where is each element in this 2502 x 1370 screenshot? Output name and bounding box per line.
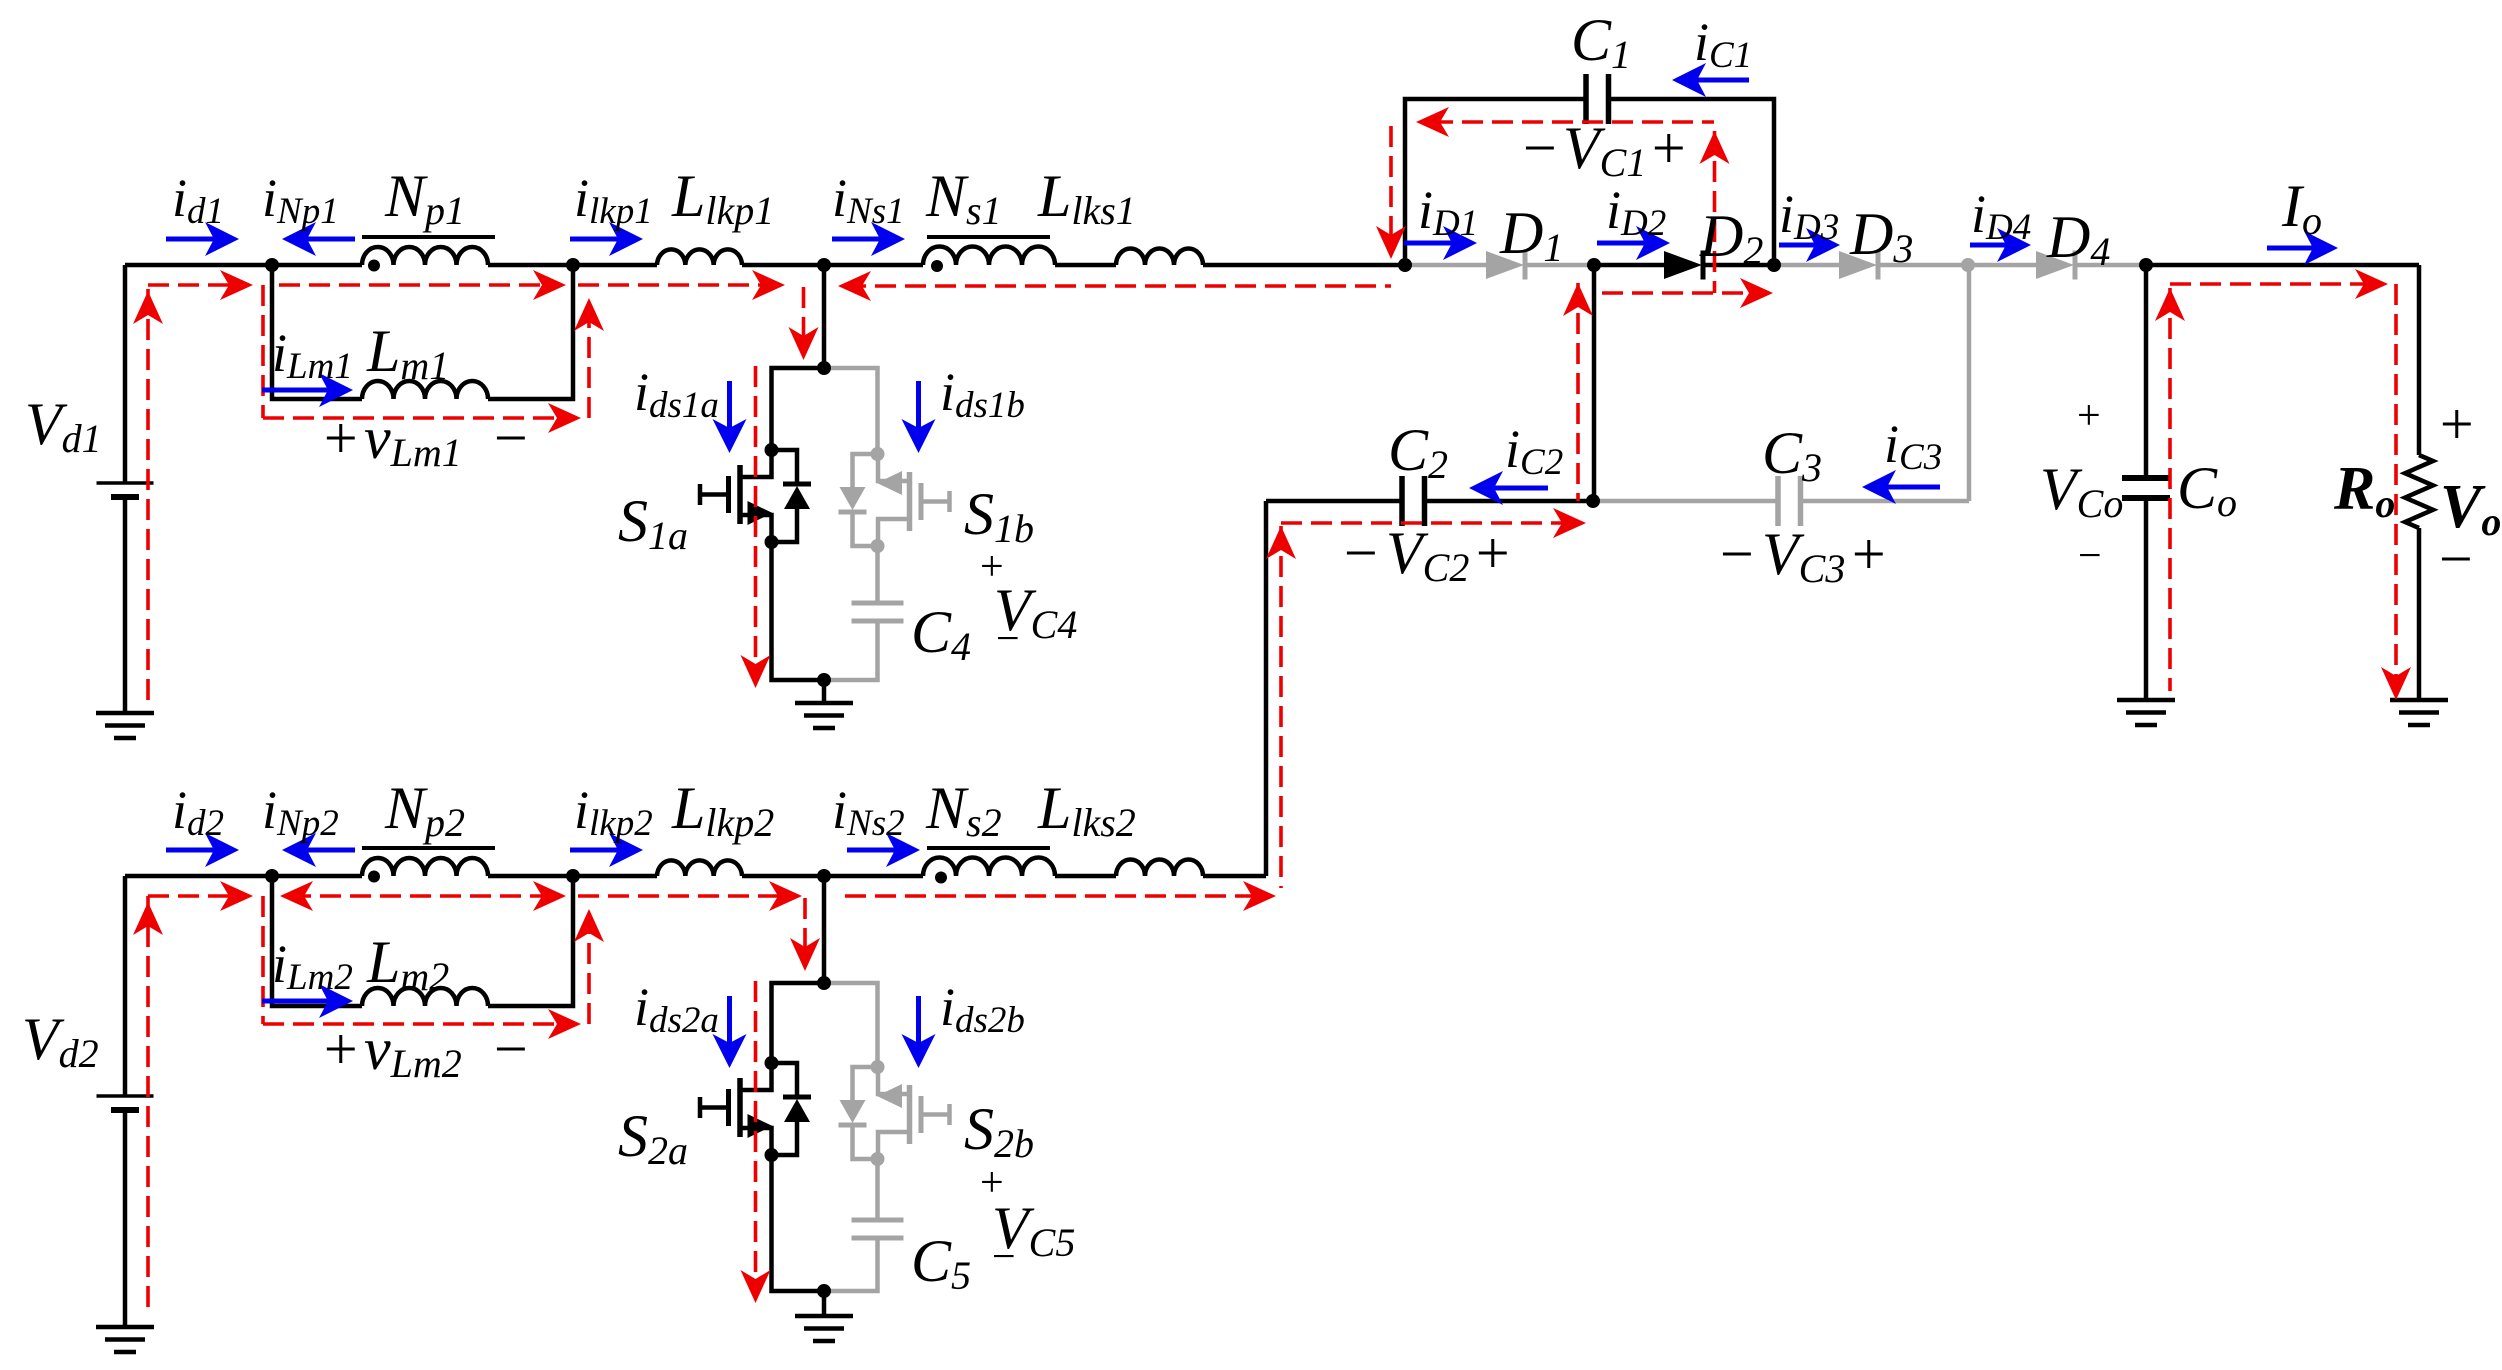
wire: red path through S1a — [754, 366, 758, 680]
red path arrowhead up at 589,298 — [574, 298, 604, 331]
svg-text:ids1a: ids1a — [634, 362, 719, 426]
svg-text:S2a: S2a — [618, 1103, 688, 1173]
winding Llks1 — [1116, 249, 1203, 266]
arrow I_o — [2267, 246, 2314, 251]
wire: Ro branch with resistor zigzag — [2417, 265, 2422, 455]
red path arrowhead up at 1714.5,131 — [1700, 131, 1730, 164]
arrow i_Np1 (left) — [306, 237, 355, 242]
capacitor C1 — [1586, 74, 1609, 124]
arrow i_C2 (left) — [1493, 486, 1548, 491]
red path arrowhead left at 280,896 — [280, 881, 313, 911]
svg-text:S2b: S2b — [964, 1096, 1034, 1166]
svg-text:vLm2: vLm2 — [364, 1016, 462, 1086]
red path arrowhead up at 148,902 — [133, 902, 163, 935]
red path arrowhead up at 148,291 — [133, 291, 163, 324]
svg-text:ids1b: ids1b — [940, 362, 1025, 426]
svg-text:iC1: iC1 — [1694, 12, 1752, 76]
red path arrowhead down at 755.5,1303 — [741, 1270, 771, 1303]
svg-text:iLm1: iLm1 — [272, 323, 353, 387]
wire: red path through Ro — [2394, 284, 2398, 695]
red path arrowhead down at 805,971 — [790, 938, 820, 971]
svg-text:D4: D4 — [2046, 204, 2110, 274]
blue current arrowhead right at 353,1001 — [319, 984, 353, 1018]
svg-text:Llks2: Llks2 — [1037, 775, 1136, 845]
arrow i_Lm1 — [262, 388, 329, 393]
blue current arrowhead right at 1840,245 — [1806, 228, 1840, 262]
capacitor Co — [2122, 478, 2170, 498]
wire: D3/D4 segment (gray) — [1774, 263, 1839, 268]
ground (S2) — [795, 1316, 853, 1341]
red path arrowhead right at 1276,896 — [1243, 881, 1276, 911]
wire: main bottom bus segments — [125, 874, 362, 879]
svg-text:−: − — [490, 1016, 531, 1082]
svg-text:Co: Co — [2177, 455, 2237, 525]
svg-text:iNp2: iNp2 — [262, 780, 339, 844]
winding Llkp2 — [657, 860, 742, 876]
arrow i_lkp2 — [570, 848, 619, 853]
wire: red path under C2 — [1281, 521, 1580, 525]
svg-text:Llkp2: Llkp2 — [671, 775, 774, 845]
core bar Ns2 — [927, 846, 1050, 850]
node: D2-D3 junction / C1 right — [1767, 258, 1781, 272]
wire: C3 branch (gray) — [1593, 499, 1778, 504]
svg-text:Lm1: Lm1 — [366, 318, 449, 388]
ground (Vd2) — [96, 1327, 154, 1352]
red path arrowhead right at 253,285 — [220, 270, 253, 300]
blue current arrowhead down at 918.5,453 — [902, 419, 936, 453]
svg-text:C5: C5 — [911, 1228, 971, 1298]
ground (Co) — [2117, 700, 2175, 725]
wire: Vd2 source leads — [123, 876, 128, 1096]
arrow i_Ns1 — [832, 237, 881, 242]
transistor S2b — [839, 1067, 950, 1159]
wire: link to circuit 2 — [1264, 501, 1269, 876]
red path arrowhead right at 1773,293 — [1740, 278, 1773, 308]
svg-text:D1: D1 — [1499, 200, 1563, 270]
wire: red path link riser — [1279, 526, 1283, 888]
svg-text:C4: C4 — [911, 599, 971, 669]
winding Llkp1 — [657, 249, 742, 265]
wire: main top bus segments — [125, 263, 362, 268]
red path arrowhead up at 1281,526 — [1266, 526, 1296, 559]
wire: red path under D2 — [1602, 291, 1765, 295]
transistor S2a — [700, 1063, 811, 1155]
svg-text:Vd2: Vd2 — [22, 1006, 99, 1076]
svg-text:VC1: VC1 — [1563, 115, 1646, 185]
winding Lm1 — [362, 381, 488, 399]
svg-text:−: − — [2435, 526, 2476, 592]
red path arrowhead right at 566,285 — [533, 270, 566, 300]
svg-text:VC3: VC3 — [1762, 521, 1845, 591]
svg-text:Llkp1: Llkp1 — [671, 163, 774, 233]
svg-text:−: − — [2078, 533, 2102, 579]
svg-text:+: + — [2436, 391, 2477, 457]
blue current arrowhead left at 282,239 — [282, 222, 316, 256]
blue current arrowhead right at 905,239 — [871, 222, 905, 256]
capacitor C5 — [852, 1220, 904, 1238]
node: S1a source — [765, 535, 779, 549]
wire: red path to Ro — [2170, 282, 2382, 286]
red path arrowhead right at 581,418 — [548, 403, 581, 433]
svg-text:+: + — [320, 1016, 361, 1082]
red path arrowhead down at 755.5,688 — [741, 655, 771, 688]
svg-text:+: + — [1472, 520, 1513, 586]
winding Ns1 — [923, 247, 1055, 266]
svg-text:iD4: iD4 — [1971, 184, 2031, 248]
red path arrowhead left at 1416,122 — [1416, 107, 1449, 137]
wire: switch branch S2 — [822, 876, 827, 983]
red path arrowhead up at 2170,288 — [2155, 288, 2185, 321]
svg-text:Io: Io — [2281, 173, 2322, 243]
wire: D2 segment (black) — [1594, 263, 1664, 268]
blue current arrowhead right at 239,850 — [205, 833, 239, 867]
wire: red path under Np1 — [279, 283, 560, 287]
wire: C2 branch — [1592, 265, 1597, 501]
wire: output segment — [2146, 263, 2419, 268]
arrow i_D3 — [1779, 243, 1816, 248]
svg-text:−: − — [992, 1234, 1016, 1280]
svg-text:id2: id2 — [172, 780, 224, 844]
diode D3 — [1839, 251, 1878, 280]
wire: red path Vd1 rise — [146, 285, 150, 700]
capacitor C3 — [1778, 476, 1801, 526]
wire: red path Lm1 loop bottom — [263, 416, 575, 420]
polarity dot Ns1 — [931, 260, 943, 272]
wire: red path Lm2 loop left — [261, 896, 265, 1024]
svg-text:+: + — [2077, 393, 2101, 439]
svg-text:S1a: S1a — [618, 488, 688, 558]
node: S2b drain (gray) — [871, 1060, 885, 1074]
svg-text:vLm1: vLm1 — [364, 405, 462, 475]
red path arrowhead right at 566,896 — [533, 881, 566, 911]
node: S2 bottom rail — [817, 1284, 831, 1298]
svg-text:ids2a: ids2a — [634, 977, 719, 1041]
arrow i_Ns2 — [847, 848, 896, 853]
arrow i_Lm2 — [262, 999, 329, 1004]
capacitor C2 — [1402, 476, 1425, 526]
wire: S2b branch (gray) — [824, 983, 878, 1067]
blue current arrowhead right at 643,239 — [609, 222, 643, 256]
svg-text:−: − — [1716, 521, 1757, 587]
node: C1 left / D1 anode — [1398, 258, 1412, 272]
svg-text:VC2: VC2 — [1386, 520, 1469, 590]
polarity dot Np1 — [368, 260, 380, 272]
red path arrowhead right at 1586,523 — [1553, 508, 1586, 538]
node: S1b drain (gray) — [871, 447, 885, 461]
diode D1 — [1486, 251, 1525, 280]
transistor S1a — [700, 450, 811, 542]
red path arrowhead left at 838,286 — [838, 271, 871, 301]
wire: red path under Np2 — [290, 894, 560, 898]
node: bus/Lm1 left — [265, 258, 279, 272]
wire: red path along secondary 2 — [845, 894, 1255, 898]
ground (Ro) — [2390, 700, 2448, 725]
blue current arrowhead right at 2031,245 — [1997, 228, 2031, 262]
svg-text:iC2: iC2 — [1505, 419, 1563, 483]
winding Np2 — [362, 858, 488, 876]
winding Np1 — [362, 247, 488, 265]
red path arrowhead right at 802,896 — [769, 881, 802, 911]
svg-text:iD3: iD3 — [1779, 184, 1839, 248]
polarity dot Np2 — [368, 871, 380, 883]
arrow i_d2 — [166, 848, 215, 853]
arrow i_C3 (left) — [1886, 485, 1940, 490]
svg-text:C3: C3 — [1762, 420, 1822, 490]
blue current arrowhead left at 1469,488 — [1469, 471, 1503, 505]
red path arrowhead up at 589,909 — [574, 909, 604, 942]
arrow i_d1 — [166, 237, 215, 242]
red path arrowhead right at 785,285 — [752, 270, 785, 300]
wire: Lm2 loop — [272, 876, 362, 1006]
wire: D1 segment (gray) — [1405, 263, 1486, 268]
svg-text:iNs2: iNs2 — [832, 780, 905, 844]
arrow i_ds2b (down) — [916, 996, 921, 1044]
wire: red path Vd2 rise — [146, 896, 150, 1310]
svg-text:iD2: iD2 — [1606, 180, 1666, 244]
svg-text:−: − — [490, 405, 531, 471]
wire: Co branch — [2144, 265, 2149, 478]
ground (S1) — [795, 703, 853, 728]
blue current arrowhead down at 918.5,1068 — [902, 1034, 936, 1068]
svg-text:−: − — [996, 616, 1020, 662]
wire: S1b branch (gray) — [824, 368, 878, 454]
svg-text:D3: D3 — [1849, 201, 1913, 271]
blue current arrowhead right at 353,390 — [319, 373, 353, 407]
blue current arrowhead down at 729.5,1068 — [713, 1034, 747, 1068]
wire: red path C1 loop left — [1389, 126, 1393, 251]
blue current arrowhead right at 239,239 — [205, 222, 239, 256]
wire: red path Lm2 loop bottom — [263, 1022, 575, 1026]
svg-text:ids2b: ids2b — [940, 977, 1025, 1041]
wire: red path Lm1 loop right — [587, 305, 591, 418]
node: D3-D4 junction (gray) — [1961, 258, 1975, 272]
red path arrowhead down at 1391,259 — [1376, 226, 1406, 259]
svg-text:iNp1: iNp1 — [262, 168, 339, 232]
arrow i_D1 — [1404, 241, 1453, 246]
node: S1 top rail — [817, 361, 831, 375]
node: C2-C3 junction — [1586, 494, 1600, 508]
node: bus2/S2 branch — [817, 869, 831, 883]
blue current arrowhead right at 2338,248 — [2304, 231, 2338, 265]
svg-text:iLm2: iLm2 — [272, 934, 353, 998]
winding Ns2 — [923, 858, 1055, 877]
core bar Np2 — [362, 846, 495, 850]
red path arrowhead up at 1578,283 — [1563, 283, 1593, 316]
ground (Vd1) — [96, 713, 154, 738]
arrow i_ds1a (down) — [727, 381, 732, 429]
resistor Ro — [2405, 455, 2433, 528]
svg-text:+: + — [1648, 115, 1689, 181]
svg-text:VCo: VCo — [2040, 456, 2123, 526]
wire: red path Lm1 loop left — [261, 285, 265, 418]
arrow i_lkp1 — [570, 237, 619, 242]
node: bus2/Lm2 right — [566, 869, 580, 883]
node: S2 top rail — [817, 976, 831, 990]
wire: red path to switch 2 — [578, 894, 794, 898]
arrow i_C1 (left) — [1696, 78, 1749, 83]
svg-text:Np2: Np2 — [384, 775, 465, 845]
svg-text:−: − — [1340, 520, 1381, 586]
node: bus/Lm1 right — [566, 258, 580, 272]
node: D1-D2 junction — [1587, 258, 1601, 272]
svg-text:Ro: Ro — [2333, 455, 2395, 526]
core bar Np1 — [362, 235, 495, 239]
red path arrowhead right at 581,1024 — [548, 1009, 581, 1039]
node: bus2/Lm2 left — [265, 869, 279, 883]
svg-text:ilkp2: ilkp2 — [574, 780, 653, 844]
svg-text:Vd1: Vd1 — [25, 391, 102, 461]
svg-text:iD1: iD1 — [1418, 180, 1478, 244]
svg-text:+: + — [1848, 521, 1889, 587]
battery Vd2 — [97, 1096, 154, 1110]
arrow i_D4 — [1970, 243, 2007, 248]
blue current arrowhead right at 643,850 — [609, 833, 643, 867]
winding Lm2 — [362, 988, 488, 1006]
blue current arrowhead left at 1672,80 — [1672, 63, 1706, 97]
red path arrowhead right at 253,896 — [220, 881, 253, 911]
blue current arrowhead right at 920,850 — [886, 833, 920, 867]
capacitor C4 — [852, 603, 904, 621]
blue current arrowhead right at 1670,243 — [1636, 226, 1670, 260]
svg-text:C1: C1 — [1571, 7, 1631, 77]
polarity dot Ns2 — [935, 872, 947, 884]
red path arrowhead down at 2396,700 — [2381, 667, 2411, 700]
wire: red return under secondary 1 — [845, 284, 1391, 288]
svg-text:Ns2: Ns2 — [925, 775, 1002, 845]
node: D4 cathode / Co branch — [2139, 258, 2153, 272]
wire: red path to primary 2 — [148, 894, 244, 898]
wire: red path Lm2 loop right — [587, 916, 591, 1024]
blue current arrowhead down at 729.5,453 — [713, 419, 747, 453]
arrow i_D2 — [1597, 241, 1646, 246]
wire: C1 loop — [1405, 99, 1586, 265]
node: S2a drain — [765, 1056, 779, 1070]
arrow i_ds1b (down) — [916, 381, 921, 429]
arrow i_ds2a (down) — [727, 996, 732, 1044]
node: S1b source (gray) — [871, 539, 885, 553]
wire: Vd1 source leads — [123, 265, 128, 483]
wire: Lm1 loop — [272, 265, 362, 399]
battery Vd1 — [97, 483, 154, 497]
core bar Ns1 — [927, 235, 1050, 239]
arrow i_Np2 (left) — [306, 848, 355, 853]
wire: red path into S1 branch — [802, 287, 806, 352]
svg-text:+: + — [320, 405, 361, 471]
node: S2a source — [765, 1148, 779, 1162]
svg-text:Ns1: Ns1 — [925, 163, 1002, 233]
winding Llks2 — [1116, 860, 1203, 876]
svg-text:iNs1: iNs1 — [832, 168, 905, 232]
transistor S1b — [839, 454, 950, 546]
svg-text:D2: D2 — [1699, 203, 1763, 273]
wire: red path Co rise — [2168, 288, 2172, 691]
svg-text:S1b: S1b — [964, 481, 1034, 551]
diode D4 — [2036, 251, 2075, 280]
red path arrowhead right at 2388,284 — [2355, 269, 2388, 299]
svg-text:C2: C2 — [1388, 417, 1448, 487]
red path arrowhead down at 803.5,360 — [789, 327, 819, 360]
svg-text:iC3: iC3 — [1884, 414, 1942, 478]
svg-text:Np1: Np1 — [384, 163, 465, 233]
node: S1a drain — [765, 443, 779, 457]
node: bus/S1 branch — [817, 258, 831, 272]
wire: red path into S2 branch — [803, 898, 807, 963]
svg-text:ilkp1: ilkp1 — [574, 168, 653, 232]
wire: red path C1 loop top — [1432, 120, 1714, 124]
blue current arrowhead left at 1862,487 — [1862, 470, 1896, 504]
svg-text:Llks1: Llks1 — [1037, 163, 1136, 233]
wire: red path through S2a — [754, 981, 758, 1295]
wire: red path C1 loop right — [1713, 131, 1717, 293]
diode D2 — [1664, 251, 1703, 280]
wire: red path to switch 1 — [578, 283, 779, 287]
node: S1 bottom rail — [817, 673, 831, 687]
wire: switch branch S1 — [822, 265, 827, 368]
svg-text:Lm2: Lm2 — [366, 929, 449, 999]
svg-text:−: − — [1519, 115, 1560, 181]
wire: red path C2 riser — [1576, 283, 1580, 501]
blue current arrowhead right at 1477,243 — [1443, 226, 1477, 260]
blue current arrowhead left at 282,850 — [282, 833, 316, 867]
wire: red path to primary 1 — [148, 283, 244, 287]
svg-text:id1: id1 — [172, 168, 224, 232]
node: S2b source (gray) — [871, 1152, 885, 1166]
